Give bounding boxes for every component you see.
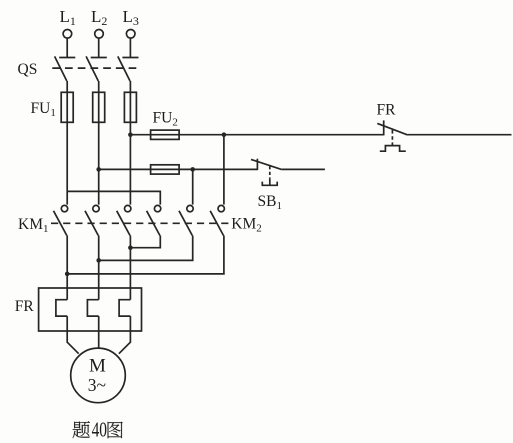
wire control line 2 left segment: [99, 168, 258, 170]
motor label 3~: [88, 375, 106, 395]
wire KM2-1 output to phase C: [130, 236, 160, 248]
wire L1 to QS: [66, 38, 68, 57]
wire QS pole1 to FU1a: [66, 81, 68, 92]
terminal L1: [63, 30, 72, 39]
wire control line 1 right segment: [408, 134, 512, 136]
wire KM2-3 feed vertical: [223, 135, 225, 205]
contactor KM1 contact 2: [85, 205, 99, 235]
wire phase B vertical (fuse to KM1-2): [98, 122, 100, 204]
fuse FU2a: [151, 130, 180, 139]
node phase C / control line 1: [128, 132, 133, 137]
wire heater C to motor: [119, 316, 130, 354]
wire QS pole2 to FU1b: [98, 81, 100, 92]
svg-text:FU2: FU2: [153, 110, 178, 129]
switch QS pole 3: [118, 56, 139, 81]
terminal L3: [126, 30, 135, 39]
caption 题40图: [73, 418, 123, 442]
svg-text:KM1: KM1: [18, 216, 48, 235]
svg-text:FR: FR: [377, 102, 397, 119]
svg-text:SB1: SB1: [258, 193, 282, 212]
wire phase A below KM1-1: [66, 236, 68, 300]
label KM2: [231, 215, 261, 234]
contactor KM2 contact 1: [147, 205, 161, 235]
node line 1 / KM2-3 feed: [222, 132, 227, 137]
label FR (contact): [377, 102, 397, 119]
label QS: [18, 61, 38, 78]
FR heater element phase A: [56, 300, 67, 316]
node phase B / control line 2: [96, 167, 101, 172]
motor label M: [89, 356, 106, 377]
FR heater element phase B: [87, 300, 98, 316]
motor M: [71, 348, 126, 403]
wire phase A vertical (fuse to KM1-1): [66, 122, 68, 204]
node merge B / KM2-2: [96, 258, 101, 263]
thermal relay FR NC contact: [377, 120, 407, 135]
pushbutton SB1 NC contact: [251, 159, 282, 170]
node merge C / KM2-1: [128, 245, 133, 250]
wire KM2-1 feed jog from phase A: [67, 191, 160, 204]
terminal L2: [95, 30, 104, 39]
svg-text:40: 40: [92, 418, 107, 442]
wire L2 to QS: [98, 38, 100, 57]
contactor KM1 contact 1: [54, 205, 68, 235]
KM interlock dashed link: [51, 222, 228, 224]
wire phase B below KM1-2: [98, 236, 100, 300]
svg-text:FR: FR: [15, 298, 35, 315]
wire L3 to QS: [129, 38, 131, 57]
label L2: [91, 7, 107, 28]
label SB1: [258, 193, 282, 212]
wire KM2-2 feed vertical: [192, 169, 194, 204]
svg-text:3~: 3~: [88, 375, 106, 395]
contactor KM1 contact 3: [117, 205, 131, 235]
svg-text:FU1: FU1: [31, 100, 56, 119]
contactor KM2 contact 3: [210, 205, 224, 235]
fuse FU1b: [93, 92, 105, 122]
label KM1: [18, 216, 48, 235]
node line 2 / KM2-2 feed: [190, 167, 195, 172]
wire heater B to motor: [98, 316, 100, 348]
wire heater A to motor: [67, 316, 79, 354]
wire QS pole3 to FU1c: [129, 81, 131, 92]
svg-text:L2: L2: [91, 7, 107, 28]
svg-text:L1: L1: [60, 7, 76, 28]
svg-text:KM2: KM2: [231, 215, 261, 234]
contactor KM2 contact 2: [179, 205, 193, 235]
fuse FU2b: [151, 165, 180, 174]
wire KM2-3 output to phase A: [67, 236, 224, 274]
wire KM2-2 output to phase B: [99, 236, 193, 261]
FR actuator linkage: [380, 130, 406, 151]
label FU2: [153, 110, 178, 129]
wire phase C below KM1-3: [129, 236, 131, 300]
wire control line 2 right segment: [282, 168, 325, 170]
wire control line 1 left segment: [130, 134, 383, 136]
fuse FU1a: [61, 92, 73, 122]
QS interlock dashed link: [52, 67, 136, 69]
label L3: [123, 7, 139, 28]
FR heater element phase C: [119, 300, 130, 316]
switch QS pole 2: [86, 56, 107, 81]
node merge A / KM2-3: [65, 272, 70, 277]
fuse FU1c: [124, 92, 136, 122]
switch QS pole 1: [55, 56, 76, 81]
label L1: [60, 7, 76, 28]
label FU1: [31, 100, 56, 119]
SB1 actuator linkage: [262, 166, 277, 185]
label FR (overload heaters): [15, 298, 35, 315]
svg-text:M: M: [89, 356, 106, 377]
thermal relay FR frame: [39, 288, 142, 331]
wire phase C vertical (fuse to KM1-3): [129, 122, 131, 204]
svg-text:QS: QS: [18, 61, 38, 78]
svg-text:L3: L3: [123, 7, 139, 28]
